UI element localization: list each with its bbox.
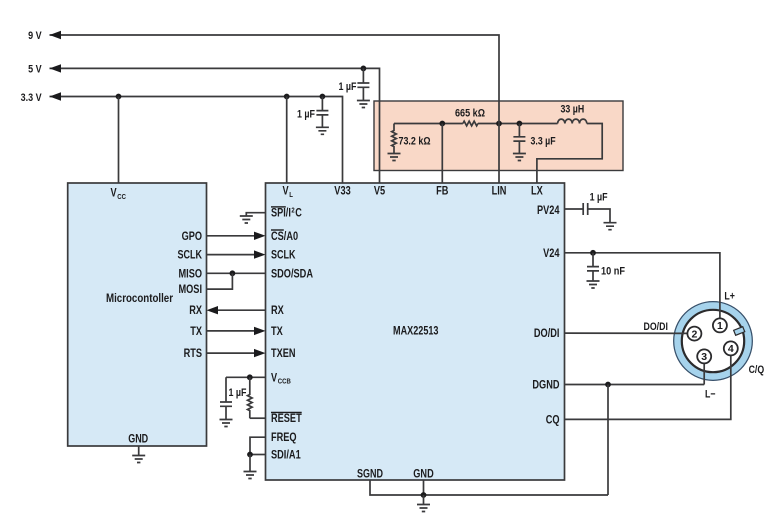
- svg-text:V: V: [111, 188, 117, 200]
- svg-text:SDO/SDA: SDO/SDA: [271, 268, 313, 280]
- svg-text:MOSI: MOSI: [179, 284, 203, 296]
- inductor L1 33 uH: [558, 119, 587, 123]
- svg-text:DO/DI: DO/DI: [644, 321, 668, 333]
- arrowhead into SCLK: [254, 250, 266, 258]
- connector pin 1: [713, 318, 727, 332]
- resistor R2 665 kOhm: [463, 121, 478, 126]
- resistor R1 73.2 kOhm: [392, 124, 397, 154]
- ground (R1): [388, 154, 401, 161]
- wire inductor to LX pin: [537, 124, 602, 184]
- arrowhead into TX: [254, 327, 266, 335]
- ground (C4): [220, 420, 233, 427]
- ground (U1 GND): [417, 505, 430, 512]
- svg-text:V24: V24: [543, 248, 560, 260]
- svg-text:SCLK: SCLK: [271, 250, 296, 262]
- svg-text:3.3 µF: 3.3 µF: [531, 136, 556, 148]
- wire DO/DI to pin2: [565, 332, 688, 334]
- wire SDI tie to ground: [249, 455, 251, 472]
- wire 3.3V rail to V33: [50, 97, 343, 184]
- capacitor C1 1 uF (3.3V): [316, 97, 328, 128]
- wire V24 to L+ pin1: [565, 253, 720, 319]
- arrowhead 3.3V: [50, 92, 62, 100]
- svg-text:C/Q: C/Q: [749, 364, 765, 376]
- junction node C3 top: [517, 121, 523, 127]
- svg-text:GPO: GPO: [182, 231, 202, 243]
- svg-text:73.2 kΩ: 73.2 kΩ: [399, 136, 431, 148]
- connector J1 M12 ring: [674, 302, 752, 380]
- svg-text:TX: TX: [271, 326, 283, 338]
- wire pin3 lead: [703, 363, 705, 384]
- wire U1 GND drop: [423, 480, 425, 495]
- svg-text:4: 4: [728, 343, 734, 355]
- junction node VL drop: [284, 94, 290, 100]
- ground (SPI/I2C): [240, 216, 253, 223]
- svg-text:CQ: CQ: [546, 414, 560, 426]
- wire VL drop: [286, 97, 288, 184]
- svg-text:SCLK: SCLK: [178, 250, 203, 262]
- wire 665k to inductor: [478, 123, 558, 125]
- wire SGND drop: [370, 480, 608, 495]
- resistor R3 (VCCB to RESET): [248, 377, 253, 418]
- svg-text:L−: L−: [705, 389, 716, 401]
- ground (C3): [513, 154, 526, 161]
- wire FB drop: [441, 124, 443, 184]
- capacitor C6 10 nF: [587, 253, 599, 281]
- capacitor C2 1 uF (5V): [357, 68, 369, 100]
- wire GND to ground: [423, 495, 425, 505]
- svg-text:TXEN: TXEN: [271, 348, 296, 360]
- svg-text:TX: TX: [190, 326, 202, 338]
- ground (FREQ/SDI): [244, 472, 257, 479]
- connector pin 2: [687, 327, 701, 341]
- wire RESET: [250, 417, 266, 419]
- svg-text:1 µF: 1 µF: [590, 192, 608, 204]
- svg-text:SPI/I: SPI/I: [271, 208, 291, 220]
- svg-text:665 kΩ: 665 kΩ: [455, 108, 485, 120]
- svg-text:1 µF: 1 µF: [229, 387, 247, 399]
- svg-text:MAX22513: MAX22513: [393, 326, 439, 338]
- ground (U2 GND): [132, 456, 145, 463]
- svg-text:5 V: 5 V: [28, 64, 42, 76]
- svg-text:DGND: DGND: [532, 380, 559, 392]
- junction node MISO/MOSI: [230, 270, 236, 276]
- IC U1 MAX22513: [266, 183, 565, 480]
- junction node C1 top: [320, 94, 326, 100]
- wire SDI/A1: [250, 454, 266, 456]
- svg-text:RESET: RESET: [271, 413, 302, 425]
- svg-text:LIN: LIN: [492, 186, 507, 198]
- arrowhead 5V: [50, 64, 62, 72]
- svg-text:FREQ: FREQ: [271, 432, 297, 444]
- junction node VCCB: [247, 374, 253, 380]
- wire filter top rail (73.2k top to 665k): [394, 123, 463, 125]
- capacitor C5 1 uF (PV24, series): [583, 203, 588, 215]
- connector notch: [734, 327, 745, 336]
- wire VCCB node: [226, 376, 266, 378]
- svg-text:RTS: RTS: [184, 348, 203, 360]
- junction node SDI/A1: [247, 452, 253, 458]
- junction node GND rail: [421, 492, 427, 498]
- svg-text:L: L: [289, 190, 293, 199]
- svg-text:RX: RX: [271, 305, 284, 317]
- svg-text:Microcontoller: Microcontoller: [106, 293, 173, 305]
- wire 9V rail to LIN: [50, 35, 500, 183]
- connector pin 4: [724, 341, 738, 355]
- arrowhead into RX (MCU): [207, 306, 219, 314]
- svg-text:C: C: [295, 208, 302, 220]
- svg-text:9 V: 9 V: [28, 30, 42, 42]
- arrowhead into TXEN: [254, 349, 266, 357]
- svg-text:1: 1: [717, 320, 723, 332]
- wire FREQ to SDI/A1 tie: [250, 437, 266, 454]
- wire RX to RX: [217, 309, 266, 311]
- svg-text:10 nF: 10 nF: [601, 266, 625, 278]
- svg-text:1 µF: 1 µF: [297, 109, 315, 121]
- ground (C2): [357, 101, 370, 108]
- junction node LIN: [496, 121, 502, 127]
- svg-text:1 µF: 1 µF: [339, 81, 357, 93]
- svg-text:RX: RX: [189, 305, 202, 317]
- capacitor C3 3.3 uF: [513, 124, 525, 154]
- svg-text:L+: L+: [724, 291, 735, 303]
- svg-text:33 µH: 33 µH: [561, 104, 585, 116]
- wire CQ to pin4: [565, 355, 731, 419]
- svg-text:SDI/A1: SDI/A1: [271, 450, 301, 462]
- ground (C5): [604, 223, 617, 230]
- wire MISO to SDO/SDA: [207, 272, 266, 274]
- junction node C2 top: [361, 66, 367, 72]
- ground (C1): [316, 127, 329, 134]
- wire DGND to pin3: [565, 384, 705, 386]
- wire GPO to CS/A0: [207, 235, 256, 237]
- wire SCLK to SCLK: [207, 254, 256, 256]
- junction node DGND: [605, 382, 611, 388]
- svg-text:CS/A0: CS/A0: [271, 231, 298, 243]
- microcontroller U2: [68, 183, 207, 446]
- junction node FB: [439, 121, 445, 127]
- svg-text:FB: FB: [436, 186, 448, 198]
- svg-text:CC: CC: [117, 192, 126, 201]
- svg-text:3: 3: [701, 351, 707, 363]
- svg-text:V: V: [283, 186, 289, 198]
- connector pin 3: [697, 349, 711, 363]
- junction node VCC drop: [116, 94, 122, 100]
- arrowhead 9V: [50, 31, 62, 39]
- ground (C6): [587, 281, 600, 288]
- svg-text:PV24: PV24: [537, 205, 560, 217]
- svg-text:CCB: CCB: [278, 377, 291, 386]
- highlight region (DC-DC feedback filter): [374, 101, 623, 171]
- wire DGND junction to GND rail: [607, 385, 609, 496]
- svg-text:GND: GND: [128, 434, 148, 446]
- svg-text:MISO: MISO: [179, 268, 203, 280]
- svg-text:V5: V5: [374, 186, 386, 198]
- svg-text:2: 2: [691, 328, 697, 340]
- wire TX to TX: [207, 330, 256, 332]
- svg-text:3.3 V: 3.3 V: [21, 92, 43, 104]
- wire PV24 to C5: [565, 208, 584, 210]
- capacitor C4 1 uF (VCCB): [220, 377, 232, 419]
- junction node C6 top: [590, 250, 596, 256]
- wire C5 to ground: [588, 209, 610, 223]
- svg-text:DO/DI: DO/DI: [534, 328, 560, 340]
- wire VCC drop: [118, 97, 120, 184]
- svg-text:V33: V33: [334, 186, 350, 198]
- svg-text:LX: LX: [531, 186, 543, 198]
- arrowhead into CS/A0: [254, 232, 266, 240]
- wire SPI/I2C to ground: [246, 213, 265, 216]
- wire 5V rail to V5: [50, 68, 380, 183]
- svg-text:V: V: [271, 372, 277, 384]
- wire RTS to TXEN: [207, 352, 256, 354]
- wire MCU GND to ground: [138, 446, 140, 456]
- svg-text:SGND: SGND: [357, 468, 383, 480]
- wire MOSI to junction: [207, 273, 233, 289]
- svg-text:GND: GND: [413, 468, 433, 480]
